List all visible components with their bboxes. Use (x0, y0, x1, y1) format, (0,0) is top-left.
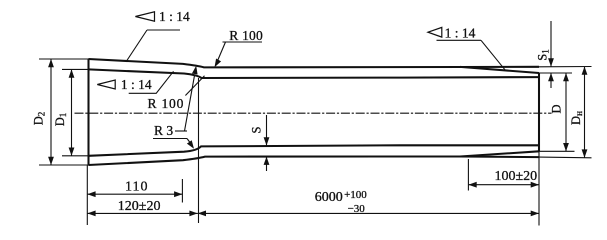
svg-text:−30: −30 (348, 203, 366, 215)
svg-text:S: S (250, 126, 264, 133)
svg-text:1 : 14: 1 : 14 (159, 9, 190, 24)
svg-text:R 100: R 100 (229, 28, 263, 43)
svg-text:+100: +100 (344, 189, 367, 201)
svg-text:D: D (550, 104, 564, 113)
svg-text:110: 110 (125, 180, 148, 195)
svg-text:1 : 14: 1 : 14 (445, 25, 476, 40)
svg-text:R 3: R 3 (154, 123, 173, 138)
svg-text:6000: 6000 (315, 190, 343, 205)
svg-text:100±20: 100±20 (495, 169, 538, 184)
svg-text:120±20: 120±20 (118, 199, 161, 214)
svg-text:1 : 14: 1 : 14 (121, 77, 152, 92)
svg-text:R 100: R 100 (148, 96, 185, 111)
